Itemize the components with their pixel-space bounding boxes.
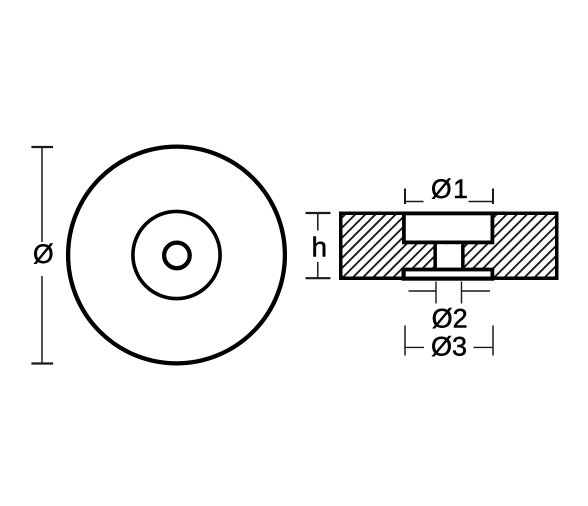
svg-text:Ø2: Ø2 xyxy=(432,303,468,333)
svg-text:h: h xyxy=(312,231,328,262)
svg-text:Ø3: Ø3 xyxy=(431,332,467,362)
svg-text:Ø1: Ø1 xyxy=(431,174,469,204)
svg-text:Ø: Ø xyxy=(33,239,54,269)
